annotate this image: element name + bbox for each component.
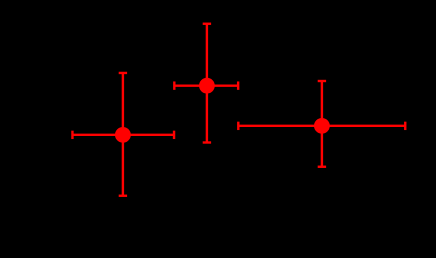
data point 3 marker [314,118,330,134]
data point 1 vertical error bar top cap [119,72,127,74]
data point 3 vertical error bar bottom cap [318,166,326,168]
data point 2 horizontal error bar left cap [173,81,175,89]
data point 1 vertical error bar [122,73,124,196]
data point 2 vertical error bar bottom cap [203,141,211,143]
data point 1 horizontal error bar left cap [71,131,73,139]
data point 3 horizontal error bar [238,125,405,127]
data point 1 marker [115,127,131,143]
data point 2 vertical error bar [206,24,208,143]
data point 1 horizontal error bar right cap [173,131,175,139]
data point 1 vertical error bar bottom cap [119,195,127,197]
data point 3 horizontal error bar right cap [404,122,406,130]
data point 2 marker [199,78,215,94]
data point 3 vertical error bar [321,81,323,167]
data point 2 horizontal error bar right cap [237,81,239,89]
data point 3 vertical error bar top cap [318,80,326,82]
data point 2 horizontal error bar [174,84,238,86]
data point 2 vertical error bar top cap [203,23,211,25]
data point 3 horizontal error bar left cap [237,122,239,130]
data point 1 horizontal error bar [72,134,174,136]
